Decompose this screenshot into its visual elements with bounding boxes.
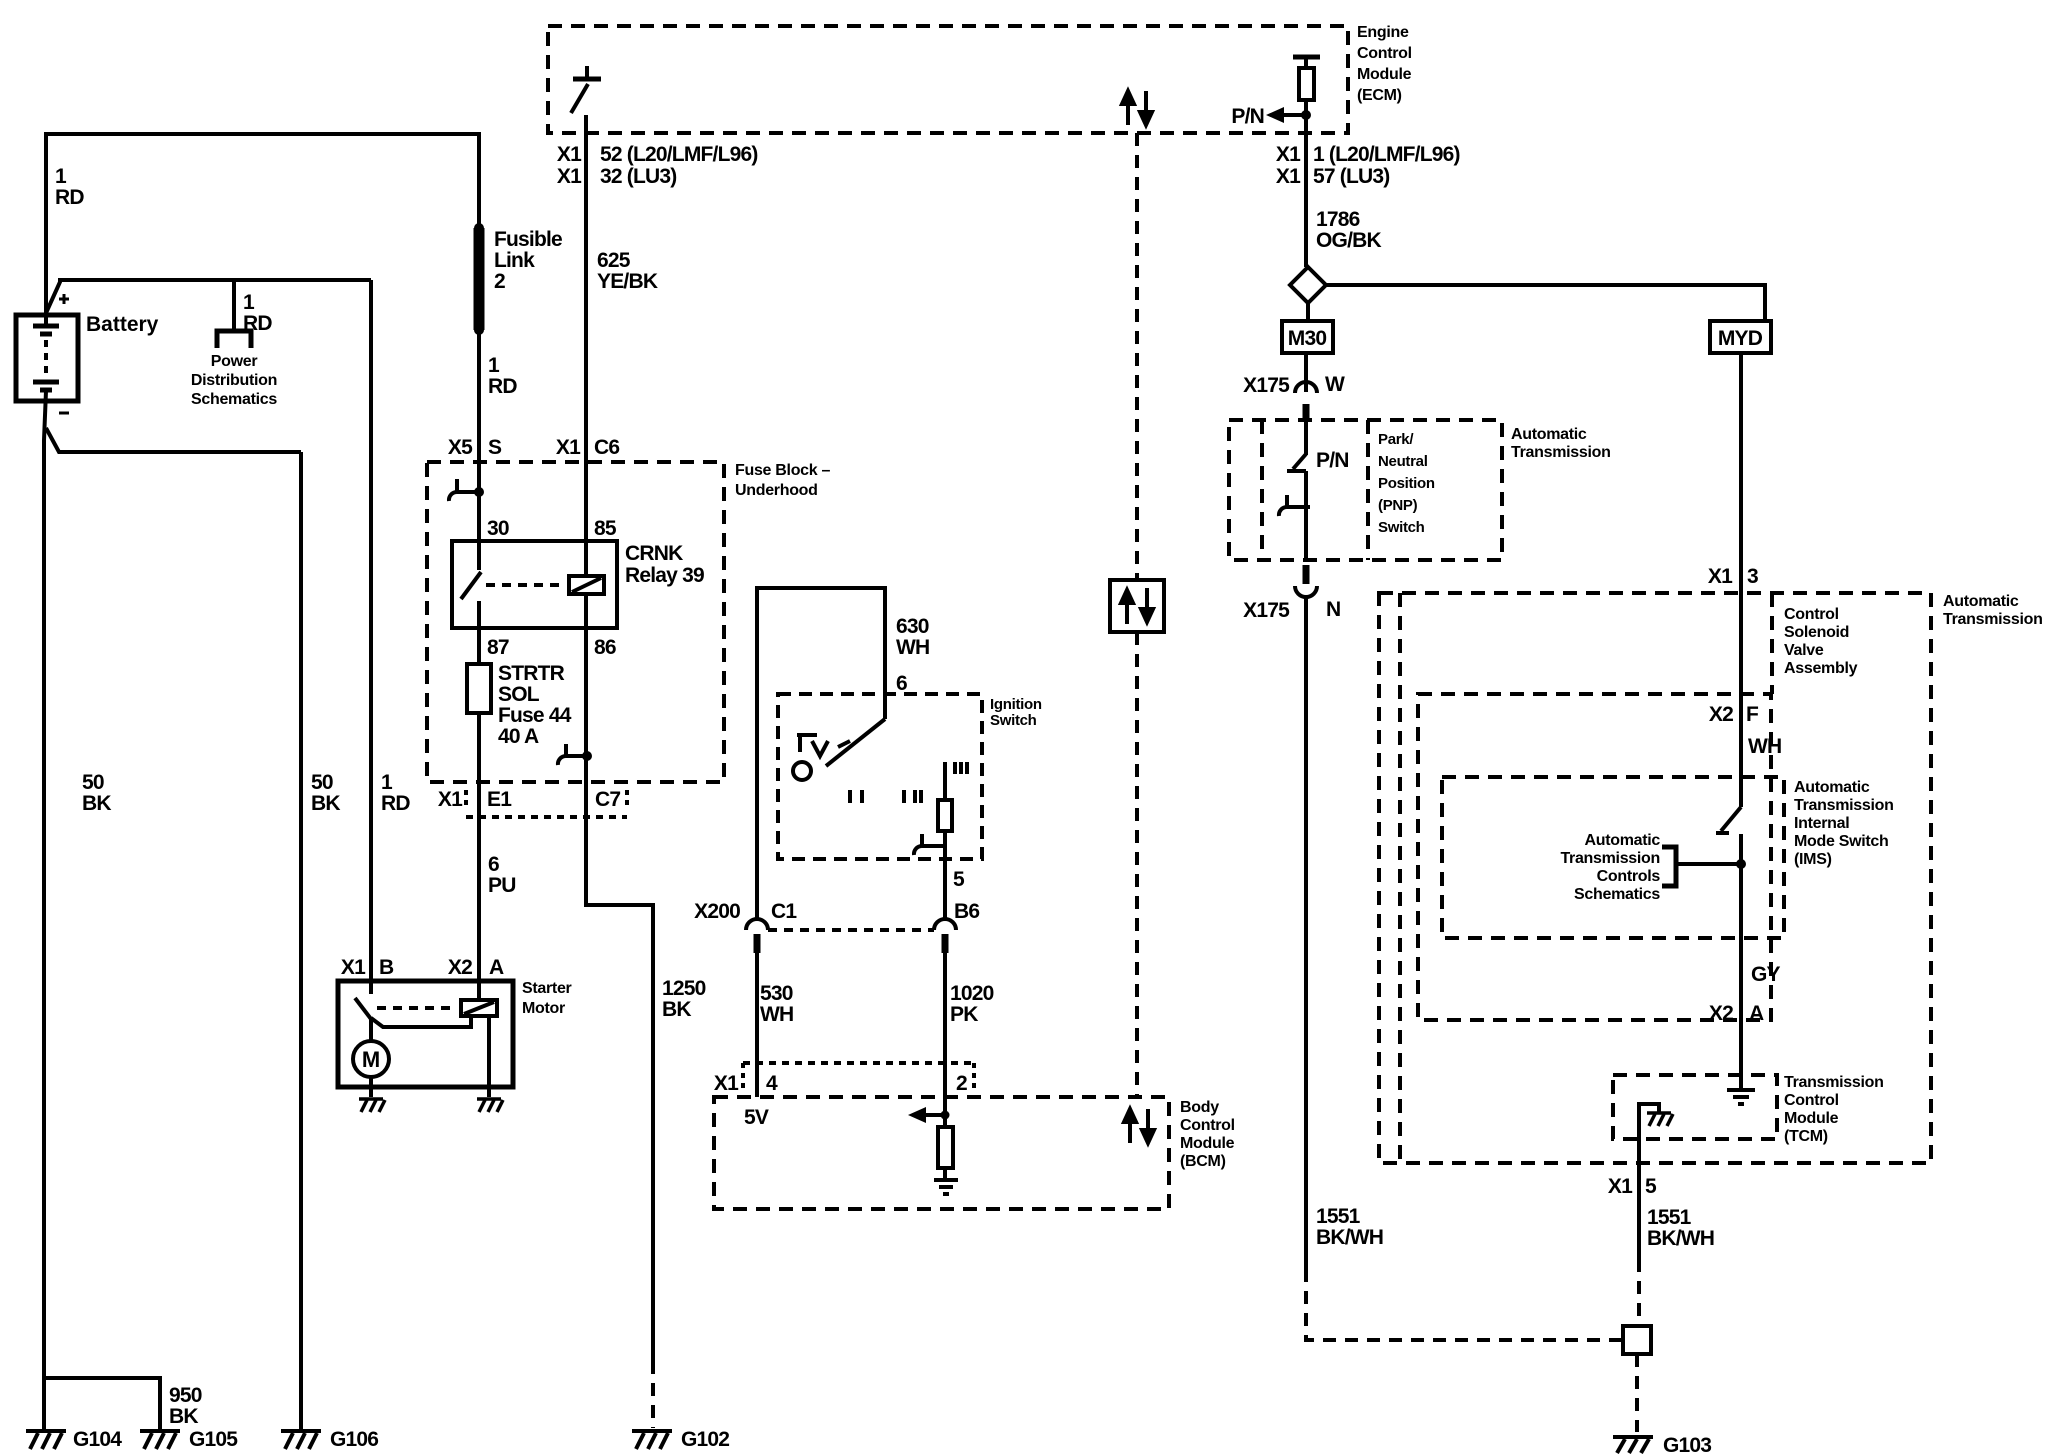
ground (starter solenoid)	[477, 1099, 503, 1112]
svg-text:(ECM): (ECM)	[1357, 87, 1402, 104]
svg-text:Control: Control	[1784, 1092, 1839, 1109]
svg-text:86: 86	[594, 636, 616, 659]
svg-text:(TCM): (TCM)	[1784, 1128, 1828, 1145]
svg-text:G103: G103	[1663, 1434, 1711, 1454]
wire 530 WH	[755, 953, 759, 1097]
wire diamond to M30	[1306, 303, 1310, 321]
svg-text:Motor: Motor	[522, 1000, 565, 1017]
wire relay 87 to fuse	[477, 628, 481, 664]
svg-text:Automatic: Automatic	[1584, 832, 1660, 849]
svg-text:Relay 39: Relay 39	[625, 564, 704, 587]
svg-text:C6: C6	[594, 436, 619, 459]
dashed wire to splice	[1306, 1269, 1621, 1340]
svg-text:Mode Switch: Mode Switch	[1794, 833, 1888, 850]
serial data arrows box	[1110, 580, 1164, 632]
center serial data dashed wire (lower)	[1135, 632, 1139, 1097]
P/N signal arrow	[1266, 107, 1306, 123]
svg-text:40 A: 40 A	[498, 725, 539, 748]
svg-text:WH: WH	[1748, 735, 1781, 758]
ignition switch blade	[826, 719, 885, 766]
IMS blade foot	[1716, 831, 1729, 835]
svg-text:57 (LU3): 57 (LU3)	[1313, 165, 1389, 188]
svg-text:Transmission: Transmission	[1560, 850, 1660, 867]
svg-text:G102: G102	[681, 1428, 729, 1451]
svg-text:BK: BK	[311, 792, 340, 815]
svg-text:87: 87	[487, 636, 509, 659]
wire resistor to pin 5	[943, 831, 947, 918]
svg-text:X1: X1	[556, 436, 581, 459]
svg-text:50: 50	[311, 771, 333, 794]
svg-text:X1: X1	[438, 788, 463, 811]
starter motor M circle	[353, 1041, 389, 1077]
starter solenoid coil	[461, 1000, 497, 1016]
svg-text:BK/WH: BK/WH	[1316, 1226, 1383, 1249]
svg-text:Distribution: Distribution	[191, 372, 277, 389]
ignition position ticks START	[955, 762, 967, 774]
wire coil to motor node	[371, 1016, 471, 1027]
svg-text:85: 85	[594, 517, 617, 540]
PNP outer dashed box	[1229, 420, 1502, 560]
svg-text:(BCM): (BCM)	[1180, 1153, 1226, 1170]
svg-text:5V: 5V	[744, 1106, 769, 1129]
starter solenoid actuator dashed link	[377, 1006, 457, 1010]
svg-text:Ignition: Ignition	[990, 696, 1042, 713]
wire resistor to ground	[943, 1168, 947, 1179]
svg-text:Automatic: Automatic	[1511, 426, 1587, 443]
starter motor box	[338, 981, 513, 1087]
svg-text:Fuse 44: Fuse 44	[498, 704, 572, 727]
P/N switch contact bar	[1287, 469, 1306, 473]
connector X200 dashed face	[768, 928, 934, 932]
connector C1 terminal	[746, 919, 768, 930]
svg-text:G106: G106	[330, 1428, 378, 1451]
splice diamond	[1290, 267, 1326, 303]
svg-text:Transmission: Transmission	[1511, 444, 1611, 461]
svg-text:STRTR: STRTR	[498, 662, 565, 685]
svg-text:1786: 1786	[1316, 208, 1360, 231]
svg-text:2: 2	[956, 1072, 967, 1095]
PNP inner dashed partition (left)	[1260, 420, 1264, 560]
svg-text:Control: Control	[1357, 45, 1412, 62]
svg-text:B6: B6	[954, 900, 979, 923]
ground G102	[632, 1431, 672, 1449]
svg-text:RD: RD	[488, 375, 517, 398]
ignition position ticks ACC	[850, 790, 862, 803]
wire 1551 BK/WH (left)	[1304, 597, 1308, 1269]
svg-text:B: B	[379, 956, 394, 979]
wire M30 to X175 W	[1304, 353, 1308, 392]
svg-text:X1: X1	[1608, 1175, 1633, 1198]
wire battery plus to second rail	[46, 280, 371, 313]
wire MYD to X1 3	[1739, 353, 1743, 694]
wire battery minus down to G104	[44, 391, 46, 1430]
svg-text:6: 6	[488, 853, 499, 876]
wire C7 down and over to G102	[586, 782, 653, 1361]
BCM input arrow	[908, 1107, 945, 1123]
terminal clamp (relay pin 30 side)	[449, 479, 479, 501]
fuse block underhood dashed box	[427, 462, 724, 782]
svg-text:CRNK: CRNK	[625, 542, 683, 565]
ECM P/N pull-up resistor	[1293, 55, 1320, 60]
svg-text:50: 50	[82, 771, 104, 794]
ground G106	[281, 1431, 321, 1449]
svg-text:2: 2	[494, 270, 505, 293]
svg-text:X1: X1	[557, 165, 582, 188]
svg-text:32 (LU3): 32 (LU3)	[600, 165, 676, 188]
svg-text:5: 5	[1645, 1175, 1657, 1198]
svg-text:Neutral: Neutral	[1378, 453, 1428, 470]
battery box	[16, 315, 78, 401]
svg-text:Module: Module	[1357, 66, 1412, 83]
earth ground (solenoid return in TCM)	[1727, 1090, 1755, 1104]
svg-text:1: 1	[55, 165, 67, 188]
svg-text:1551: 1551	[1647, 1206, 1692, 1229]
ignition switch common contact circle	[793, 762, 811, 780]
BCM pull-down resistor	[938, 1127, 953, 1168]
fusible link 2	[474, 228, 485, 330]
BCM connector dotted row	[743, 1061, 974, 1065]
ECM dashed box	[548, 26, 1348, 133]
svg-text:Controls: Controls	[1597, 868, 1661, 885]
connector dotted line below fuse block	[466, 815, 627, 819]
ground (starter motor)	[359, 1099, 385, 1112]
svg-text:Transmission: Transmission	[1794, 797, 1894, 814]
P/N switch blade	[1293, 454, 1306, 469]
wire motor to ground	[369, 1077, 373, 1097]
svg-text:1: 1	[488, 354, 500, 377]
dashed wire splice to G103	[1635, 1354, 1639, 1432]
svg-text:Module: Module	[1180, 1135, 1235, 1152]
svg-text:3: 3	[1747, 565, 1758, 588]
IMS switch blade	[1721, 807, 1741, 831]
svg-text:C7: C7	[595, 788, 620, 811]
wire 1 RD starter feed (down to starter B)	[369, 280, 373, 983]
svg-text:P/N: P/N	[1316, 449, 1349, 472]
svg-text:A: A	[1749, 1002, 1764, 1025]
svg-text:Fuse Block –: Fuse Block –	[735, 462, 831, 479]
wire TCM pin 5	[1637, 1139, 1641, 1259]
starter contact blade	[355, 998, 371, 1019]
svg-text:G105: G105	[189, 1428, 238, 1451]
svg-text:Fusible: Fusible	[494, 228, 562, 251]
svg-text:BK: BK	[662, 998, 691, 1021]
wire diamond to MYD	[1326, 285, 1765, 321]
starter pin A stub	[477, 981, 481, 1000]
fuse STRTR SOL 44	[467, 664, 491, 713]
svg-text:950: 950	[169, 1384, 202, 1407]
svg-text:Solenoid: Solenoid	[1784, 624, 1849, 641]
wire IMS to TCM ground	[1739, 834, 1743, 1089]
svg-text:YE/BK: YE/BK	[597, 270, 658, 293]
svg-text:6: 6	[896, 672, 907, 695]
relay pin 30 stub	[477, 541, 481, 570]
svg-text:Starter: Starter	[522, 980, 572, 997]
svg-text:X1: X1	[714, 1072, 739, 1095]
svg-text:X175: X175	[1243, 599, 1290, 622]
svg-text:X200: X200	[694, 900, 740, 923]
svg-text:Internal: Internal	[1794, 815, 1849, 832]
svg-text:BK: BK	[82, 792, 111, 815]
svg-text:Control: Control	[1180, 1117, 1235, 1134]
battery B+ top rail wire	[46, 134, 479, 325]
relay pin 87 stub	[477, 601, 481, 628]
wire 1020 PK	[943, 953, 947, 1127]
svg-text:BK/WH: BK/WH	[1647, 1227, 1714, 1250]
svg-text:Automatic: Automatic	[1943, 593, 2019, 610]
svg-text:X1: X1	[1708, 565, 1733, 588]
ignition switch linkage dash	[838, 741, 850, 747]
svg-text:1551: 1551	[1316, 1205, 1361, 1228]
BCM dashed box	[714, 1097, 1169, 1209]
earth ground (BCM)	[934, 1180, 958, 1194]
off-page reference bracket (IMS controls)	[1662, 847, 1676, 886]
svg-text:RD: RD	[243, 312, 272, 335]
wire P/N to X175 N	[1304, 471, 1308, 562]
svg-text:W: W	[1325, 373, 1345, 396]
svg-text:Power: Power	[211, 353, 258, 370]
svg-text:PU: PU	[488, 874, 516, 897]
svg-text:N: N	[1326, 598, 1340, 621]
svg-text:SOL: SOL	[498, 683, 540, 706]
svg-text:GY: GY	[1751, 963, 1781, 986]
svg-text:X1: X1	[1276, 143, 1301, 166]
IMS dashed box	[1442, 777, 1784, 938]
svg-text:BK: BK	[169, 1405, 198, 1428]
ignition position ticks ON	[904, 790, 921, 803]
battery plus sign	[59, 294, 69, 304]
svg-text:X175: X175	[1243, 374, 1290, 397]
svg-text:X2: X2	[1709, 703, 1733, 726]
svg-text:X2: X2	[1709, 1002, 1733, 1025]
svg-text:X2: X2	[448, 956, 472, 979]
wire ignition feed loop	[757, 588, 885, 918]
battery cell plates	[33, 324, 59, 329]
svg-text:MYD: MYD	[1718, 327, 1763, 350]
svg-text:RD: RD	[381, 792, 410, 815]
svg-text:X5: X5	[448, 436, 473, 459]
wire 50 BK down to G106	[299, 452, 303, 1430]
svg-text:(IMS): (IMS)	[1794, 851, 1832, 868]
svg-text:Switch: Switch	[990, 712, 1037, 729]
svg-text:Link: Link	[494, 249, 535, 272]
svg-text:Automatic: Automatic	[1794, 779, 1870, 796]
svg-text:X1: X1	[557, 143, 582, 166]
svg-text:Valve: Valve	[1784, 642, 1824, 659]
svg-text:OG/BK: OG/BK	[1316, 229, 1381, 252]
ground G105	[140, 1431, 180, 1449]
svg-text:X1: X1	[341, 956, 366, 979]
svg-text:P/N: P/N	[1231, 105, 1264, 128]
svg-text:Underhood: Underhood	[735, 482, 818, 499]
svg-text:PK: PK	[950, 1003, 978, 1026]
ignition start contact wire	[943, 762, 947, 800]
svg-text:625: 625	[597, 249, 631, 272]
svg-text:Engine: Engine	[1357, 24, 1409, 41]
wire fuse to E1	[477, 713, 481, 782]
svg-text:C1: C1	[771, 900, 797, 923]
terminal clamp (P/N switch)	[1279, 495, 1310, 516]
svg-text:Position: Position	[1378, 475, 1435, 492]
svg-text:52 (L20/LMF/L96): 52 (L20/LMF/L96)	[600, 143, 758, 166]
wire resistor to pin 1/57	[1304, 100, 1308, 267]
wire coil to ground	[487, 1016, 491, 1097]
svg-text:Body: Body	[1180, 1099, 1219, 1116]
svg-text:Battery: Battery	[86, 313, 159, 336]
svg-text:Assembly: Assembly	[1784, 660, 1858, 677]
ECM data arrows	[1122, 91, 1152, 125]
svg-text:G104: G104	[73, 1428, 122, 1451]
svg-text:Control: Control	[1784, 606, 1839, 623]
relay coil	[569, 576, 604, 594]
wire relay 86 to C7	[584, 628, 588, 782]
terminal clamp (ignition pin 5)	[914, 834, 945, 855]
wire ECM output 625 YE/BK trunk	[584, 115, 588, 541]
TCM dashed box	[1613, 1075, 1777, 1139]
svg-text:RD: RD	[55, 186, 84, 209]
control solenoid valve assembly dashed box right edge	[1770, 593, 1774, 694]
connector X175 W terminal	[1295, 382, 1317, 393]
svg-text:5: 5	[953, 868, 965, 891]
wire into IMS	[1739, 694, 1743, 807]
connector X175 N terminal	[1303, 565, 1310, 584]
svg-text:M30: M30	[1288, 327, 1327, 350]
svg-text:X1: X1	[1276, 165, 1301, 188]
wire battery minus branch to G106 rail	[46, 428, 301, 452]
ECM driver switch symbol	[571, 66, 601, 113]
svg-text:Schematics: Schematics	[191, 391, 277, 408]
center serial data dashed wire (upper)	[1135, 133, 1139, 580]
svg-text:WH: WH	[896, 636, 929, 659]
svg-text:A: A	[489, 956, 504, 979]
wire E1 to starter A	[477, 782, 481, 981]
svg-text:1020: 1020	[950, 982, 994, 1005]
ignition switch dashed box	[778, 694, 982, 859]
automatic transmission outer dashed box	[1379, 593, 1931, 1163]
relay actuator dashed link	[486, 583, 566, 587]
splice square	[1623, 1326, 1651, 1354]
svg-text:Switch: Switch	[1378, 519, 1425, 536]
svg-text:4: 4	[766, 1072, 778, 1095]
svg-text:530: 530	[760, 982, 793, 1005]
ignition resistor	[938, 800, 952, 831]
svg-text:Transmission: Transmission	[1784, 1074, 1884, 1091]
svg-text:Schematics: Schematics	[1574, 886, 1660, 903]
automatic transmission inner dashed wall	[1398, 593, 1402, 1163]
svg-text:1250: 1250	[662, 977, 706, 1000]
svg-text:E1: E1	[487, 788, 512, 811]
BCM data arrows	[1124, 1109, 1154, 1143]
svg-text:630: 630	[896, 615, 929, 638]
wire stub to power distribution reference	[232, 280, 236, 330]
relay switch blade	[461, 572, 481, 599]
wire branch to G105	[44, 1378, 160, 1430]
starter pin B stub	[369, 981, 373, 994]
ignition key symbol	[797, 735, 828, 756]
svg-text:Park/: Park/	[1378, 431, 1414, 448]
off-page reference bracket (power distribution)	[217, 331, 251, 348]
svg-text:F: F	[1746, 703, 1759, 726]
connector code box MYD	[1710, 321, 1771, 353]
wire bracket to IMS node	[1676, 862, 1741, 866]
wire fusible link to relay 30	[477, 330, 481, 541]
terminal clamp (C7 side)	[558, 744, 587, 765]
svg-text:1: 1	[243, 291, 255, 314]
wire relay 86 stub	[584, 594, 588, 628]
svg-text:M: M	[362, 1047, 380, 1072]
svg-text:WH: WH	[760, 1003, 793, 1026]
ground G103	[1613, 1437, 1653, 1453]
TCM internal ground wire	[1639, 1104, 1659, 1139]
dashed wire TCM to splice	[1637, 1259, 1641, 1326]
solenoid assembly / IMS region dashed box	[1418, 694, 1771, 1020]
wire blade to motor	[369, 1018, 373, 1042]
connector code box M30	[1282, 321, 1333, 353]
battery minus sign	[59, 412, 69, 415]
svg-text:1: 1	[381, 771, 393, 794]
connector B6 terminal	[934, 919, 956, 930]
dashed wire to G102	[651, 1361, 655, 1428]
PNP inner dashed partition (text box)	[1366, 420, 1370, 560]
wire into P/N switch	[1304, 422, 1308, 455]
svg-text:Transmission: Transmission	[1943, 611, 2043, 628]
wire relay 85 stub	[584, 541, 588, 576]
svg-text:(PNP): (PNP)	[1378, 497, 1418, 514]
svg-text:30: 30	[487, 517, 509, 540]
chassis ground (TCM internal)	[1647, 1113, 1673, 1126]
svg-text:S: S	[488, 436, 502, 459]
CRNK Relay 39 box	[452, 541, 617, 628]
svg-text:1 (L20/LMF/L96): 1 (L20/LMF/L96)	[1313, 143, 1460, 166]
ground G104	[26, 1431, 66, 1449]
svg-text:Module: Module	[1784, 1110, 1839, 1127]
